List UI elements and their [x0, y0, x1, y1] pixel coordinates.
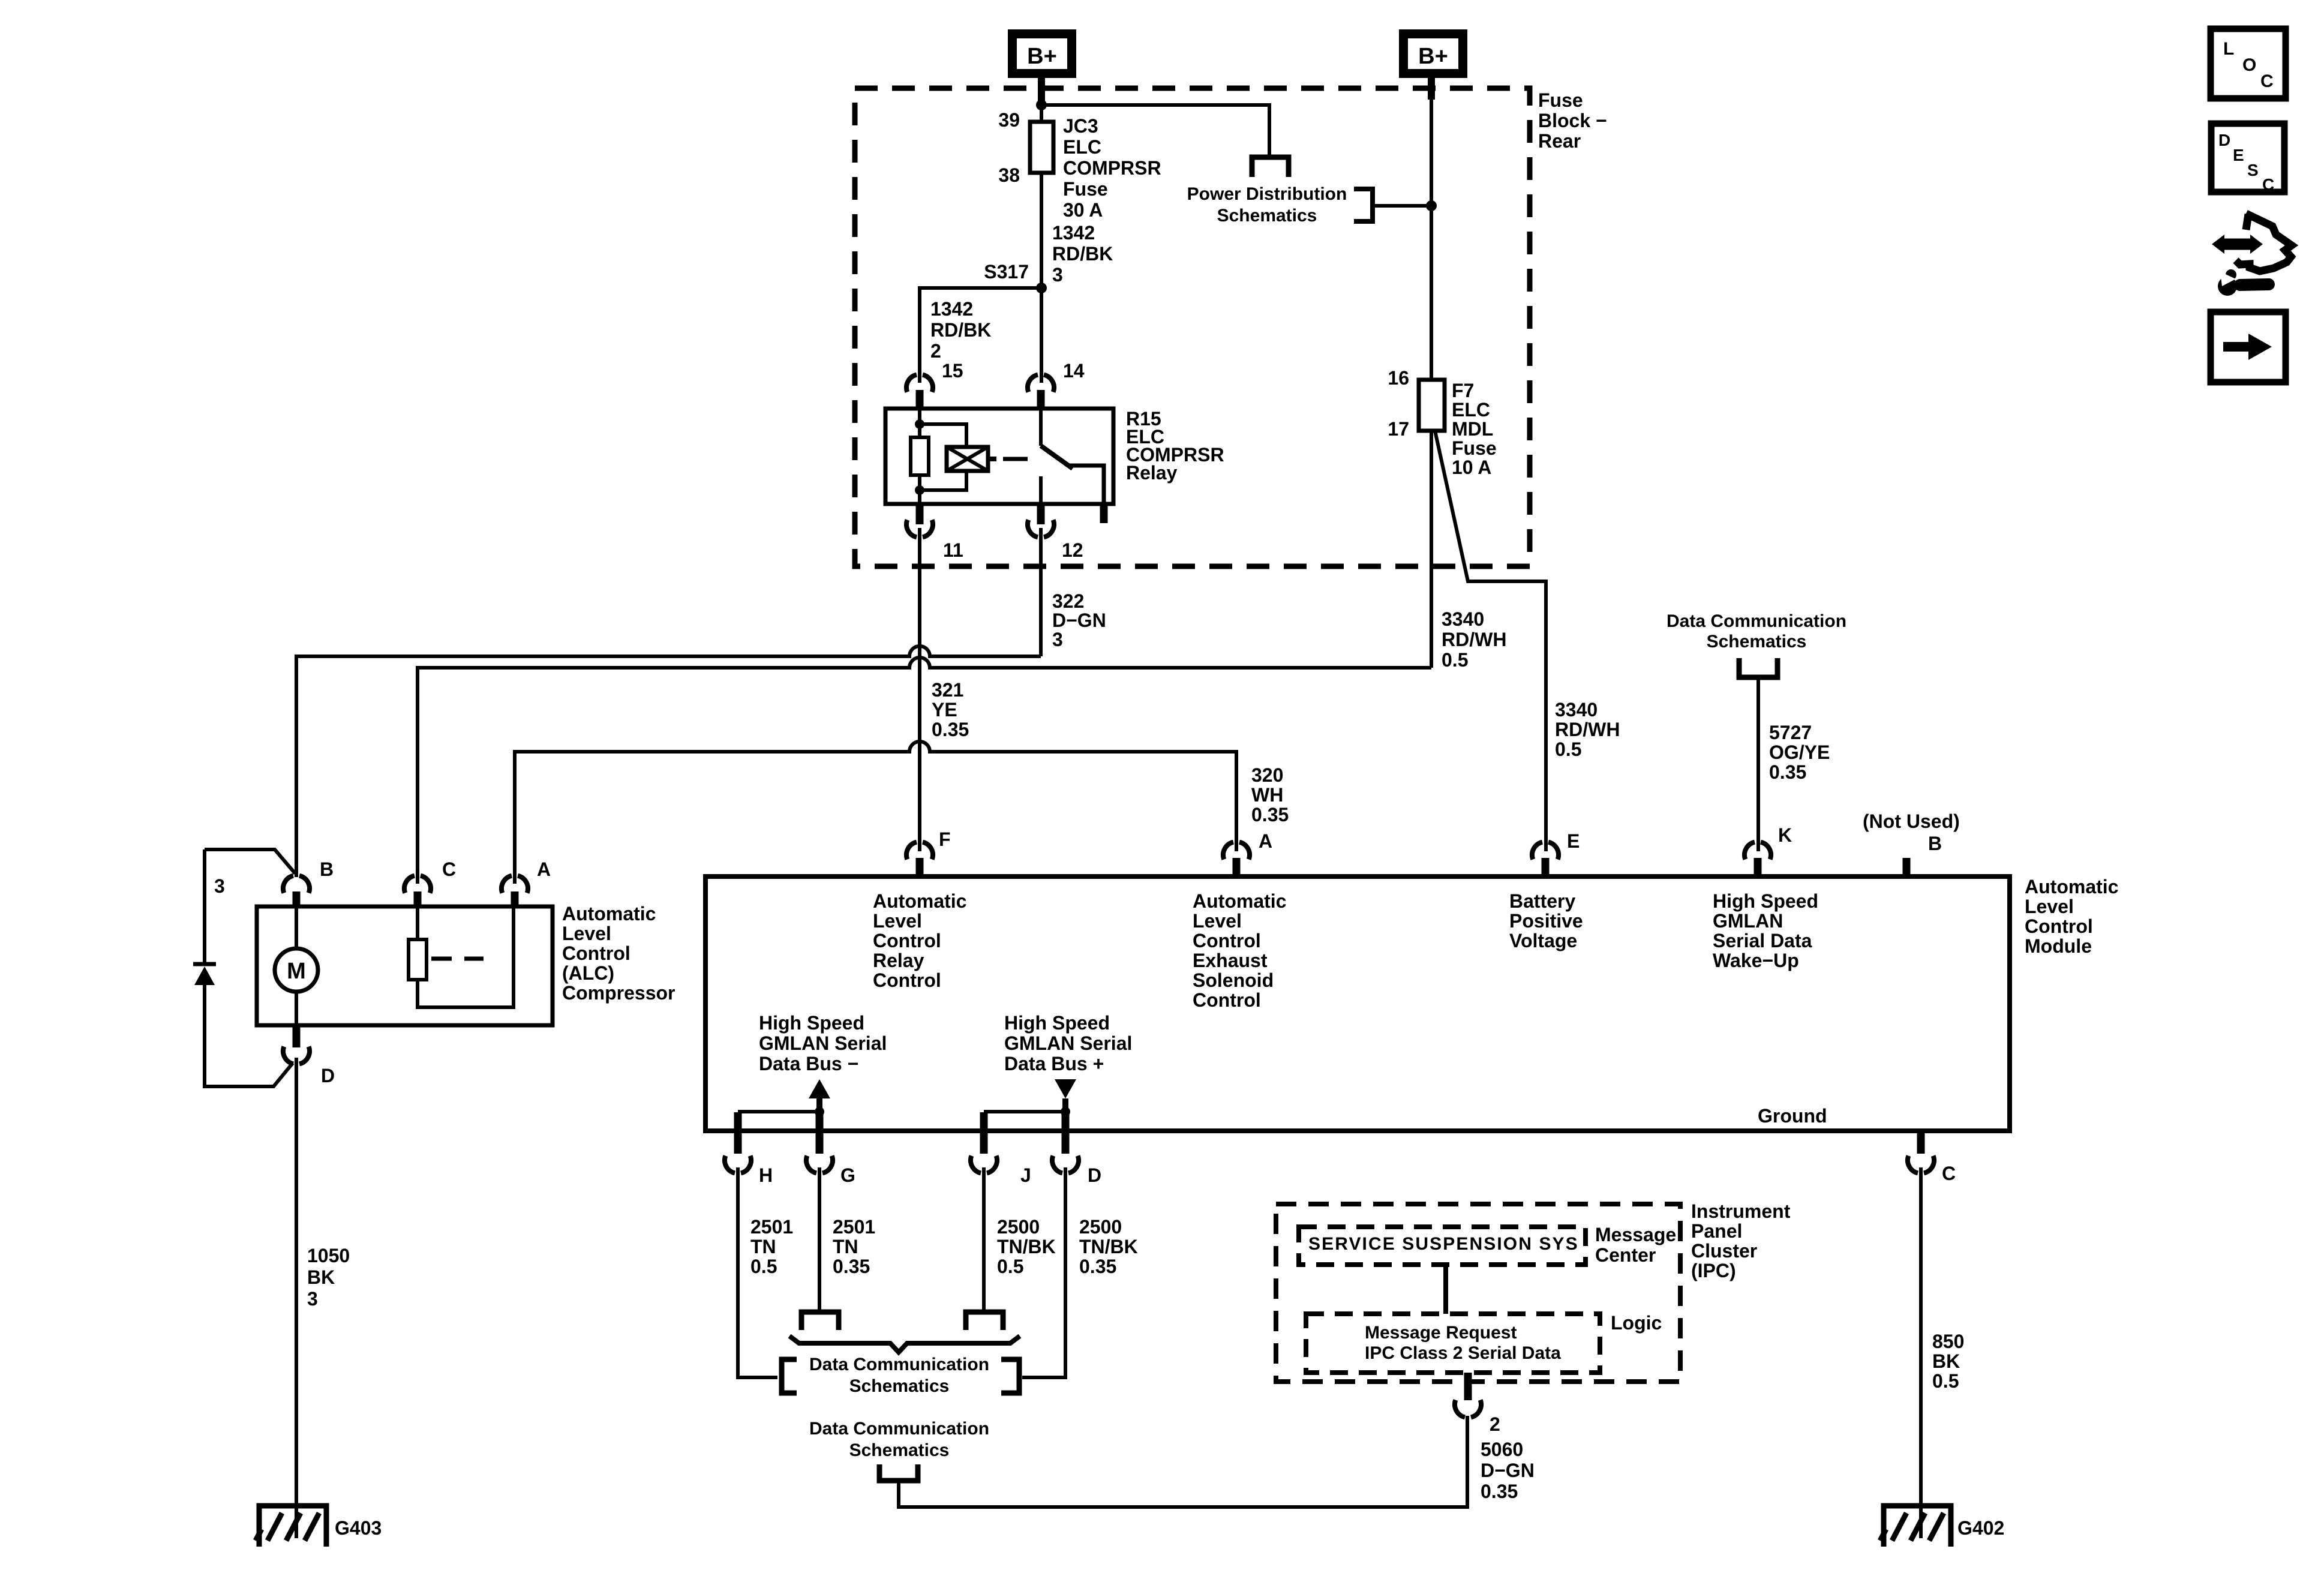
connector pin B of compressor [283, 876, 310, 893]
svg-text:3: 3 [214, 875, 225, 897]
icon box DESC [2211, 124, 2284, 194]
stub relay pin 11 [916, 504, 924, 524]
svg-text:E: E [1567, 830, 1580, 852]
svg-text:A: A [537, 858, 551, 880]
relay actuator dashed link [1003, 457, 1028, 461]
connector pin A of module [1223, 842, 1250, 860]
wire 5060 D-GN from IPC pin 2 to off-page [899, 1416, 1467, 1507]
wire 322 D-GN from relay pin 12 to compressor B [296, 528, 1041, 877]
connector pin A of compressor [502, 876, 528, 893]
stub pin E into module [1542, 858, 1550, 876]
fuse JC3 [1030, 122, 1053, 173]
wire 321 YE from relay pin 11 to module F [918, 528, 921, 851]
wire internal jumper left side lower [205, 985, 293, 1086]
stub pin C into compressor [414, 891, 422, 906]
node relay coil top [915, 419, 924, 429]
wire 2500 TN/BK 0.35 from pin D [1022, 1167, 1065, 1377]
svg-text:B+: B+ [1027, 44, 1057, 69]
motor M of compressor [275, 948, 318, 992]
svg-text:D: D [2218, 131, 2230, 149]
svg-text:Logic: Logic [1611, 1312, 1662, 1334]
svg-text:O: O [2242, 55, 2256, 75]
wire relay coil loop [920, 424, 966, 490]
svg-text:S317: S317 [984, 261, 1029, 283]
power symbol B+ (left feed) [1013, 34, 1072, 74]
wire relay coil top lead [918, 409, 921, 424]
wire 2500 TN/BK 0.5 from pin J [982, 1167, 986, 1311]
icon hand with arrow and wrench [2212, 214, 2292, 296]
stub relay pin 12 [1037, 504, 1045, 524]
stub pin A into compressor [511, 891, 519, 906]
automatic level control (ALC) compressor outline [257, 906, 553, 1025]
connector pin H of module [725, 1156, 751, 1173]
diode cathode bar [193, 962, 216, 966]
wire 5727 OG/YE to module K [1756, 677, 1760, 851]
wire 2501 TN 0.5 from pin H [738, 1167, 777, 1377]
svg-text:L: L [2223, 39, 2234, 59]
arrow data bus minus (up) [809, 1079, 830, 1098]
wire relay switch NC contact to third pin [1068, 466, 1104, 504]
svg-text:C: C [442, 858, 456, 880]
wire 850 BK 0.5 from module C to ground G402 [1919, 1167, 1923, 1538]
node junction at left B+ feed [1036, 100, 1047, 110]
svg-text:H: H [759, 1164, 773, 1186]
svg-text:S: S [2247, 161, 2259, 179]
stub pin K into module [1754, 858, 1762, 876]
wire compressor motor bottom lead [295, 992, 298, 1025]
svg-text:17: 17 [1388, 418, 1409, 440]
stub pin B (not used) of module [1903, 858, 1911, 876]
svg-text:F: F [939, 828, 951, 850]
node junction on right B+ trunk [1426, 200, 1437, 211]
wire bus+ link J to D [984, 1110, 1065, 1113]
svg-text:16: 16 [1388, 367, 1409, 389]
svg-text:39: 39 [998, 109, 1020, 131]
connector pin 12 of relay R15 [1028, 520, 1054, 538]
wire bold stub below right B+ [1428, 78, 1435, 100]
stub relay unused pin [1100, 504, 1108, 523]
svg-text:(Not Used): (Not Used) [1863, 810, 1960, 832]
stub pin 2 of IPC [1464, 1373, 1472, 1400]
svg-text:C: C [1942, 1163, 1956, 1184]
connector pin K of module [1744, 842, 1771, 860]
connector pin J of module [971, 1156, 997, 1173]
icon box arrow (next) [2211, 312, 2286, 382]
svg-text:G403: G403 [335, 1517, 382, 1539]
stub pin A into module [1233, 858, 1241, 876]
svg-text:C: C [2260, 71, 2274, 91]
svg-text:320WH0.35: 320WH0.35 [1251, 764, 1289, 825]
resistor (compressor sensor) [409, 939, 427, 980]
node relay coil bottom [915, 485, 924, 495]
stub pin 14 into relay [1037, 390, 1045, 409]
relay R15 ELC COMPRSR outline [885, 409, 1113, 504]
wire 3340 RD/WH diagonal from fuse F7 pin 17 [1435, 431, 1546, 851]
stub pin G through module edge [816, 1112, 824, 1154]
connector pin C of compressor [404, 876, 431, 893]
message center dashed box [1299, 1227, 1586, 1265]
svg-text:SERVICE SUSPENSION SYS: SERVICE SUSPENSION SYS [1308, 1234, 1579, 1254]
svg-text:11: 11 [943, 539, 963, 561]
fuse F7 ELC MDL [1419, 380, 1445, 431]
wire compressor motor top lead [295, 906, 298, 948]
splice S317 [1036, 283, 1047, 293]
wire from fuse F7 to compressor C (hop over vertical) [418, 658, 1431, 884]
wire 1342 RD/BK 3 from fuse JC3 to splice S317 [1040, 173, 1043, 288]
resistor (relay coil suppression) [911, 437, 929, 475]
bracket left of Data Communication label [782, 1359, 797, 1393]
automatic level control module outline [705, 876, 2010, 1131]
wire internal jumper left side upper [203, 849, 206, 963]
svg-text:B: B [1928, 833, 1942, 854]
node data bus plus [1061, 1107, 1070, 1116]
svg-text:M: M [287, 959, 306, 984]
svg-text:E: E [2233, 146, 2244, 164]
wire relay switch common from pin 14 [1039, 409, 1043, 446]
off-page marker (Data Communication to K) [1739, 658, 1777, 677]
relay coil X strokes [947, 447, 988, 471]
wire 1050 BK 3 to ground G403 [295, 1058, 298, 1538]
wire from B+ junction down to fuse JC3 [1040, 101, 1043, 122]
svg-text:Ground: Ground [1758, 1105, 1827, 1127]
instrument panel cluster dashed outline [1276, 1204, 1680, 1382]
svg-text:G: G [840, 1164, 855, 1186]
connector pin 14 of relay R15 [1028, 375, 1054, 392]
wire from B+ junction to Power Distribution tap [1041, 105, 1269, 157]
fuse block - rear dashed outline [855, 88, 1530, 566]
connector pin 2 of IPC [1455, 1400, 1481, 1418]
wire 320 WH from compressor A to module A [515, 742, 1236, 884]
diode (jumper) [194, 966, 215, 985]
wire bus- link H to G [738, 1110, 819, 1113]
wire message center to logic [1443, 1265, 1448, 1314]
connector pin D of module [1052, 1156, 1079, 1173]
svg-text:A: A [1259, 830, 1272, 852]
off-page marker on wire J [966, 1312, 1003, 1330]
ground G403 [256, 1506, 326, 1547]
wire bold stub below left B+ [1038, 78, 1045, 102]
brace (data bus wires group) [789, 1336, 1020, 1352]
wire arrow to bus+ node [1062, 1098, 1068, 1112]
svg-text:BatteryPositiveVoltage: BatteryPositiveVoltage [1509, 890, 1583, 951]
wire arrow to bus- node [816, 1098, 822, 1112]
svg-text:K: K [1778, 824, 1792, 846]
svg-text:B+: B+ [1418, 44, 1448, 69]
off-page marker on wire G [801, 1312, 839, 1330]
connector pin 11 of relay R15 [906, 520, 933, 538]
stub pin D of compressor [293, 1025, 301, 1047]
svg-text:12: 12 [1062, 539, 1083, 561]
stub pin H through module edge [734, 1112, 742, 1154]
ground G402 [1880, 1506, 1951, 1547]
wire branch from S317 to relay pin 15 [920, 288, 1041, 383]
stub pin D through module edge [1062, 1112, 1070, 1154]
off-page marker (Power Distribution feed) [1252, 157, 1289, 177]
connector pin F of module [906, 842, 933, 860]
stub pin J through module edge [980, 1112, 988, 1154]
relay coil actuator stub [988, 457, 996, 461]
wire compressor sensor top lead [416, 906, 419, 939]
logic dashed box [1306, 1314, 1600, 1373]
connector pin C of module [1908, 1156, 1934, 1173]
svg-text:G402: G402 [1957, 1517, 2004, 1539]
relay switch blade [1041, 446, 1073, 469]
icon box LOC [2211, 29, 2286, 98]
wire 3340 RD/WH vertical trunk from fuse F7 [1430, 431, 1433, 668]
wire compressor sensor return loop [418, 906, 514, 1007]
stub pin C of module [1917, 1131, 1925, 1154]
svg-text:D: D [321, 1065, 335, 1086]
power symbol B+ (right feed) [1404, 34, 1463, 74]
wire 2501 TN 0.35 from pin G [818, 1167, 821, 1311]
wire from S317 down to relay pin 14 [1040, 288, 1043, 383]
wire relay switch output [1039, 476, 1043, 504]
wire internal jumper top [205, 849, 295, 873]
node data bus minus [815, 1107, 824, 1116]
connector pin E of module [1532, 842, 1559, 860]
svg-text:C: C [2262, 175, 2274, 194]
relay coil (box with X) [947, 447, 988, 471]
svg-text:14: 14 [1063, 360, 1085, 382]
stub pin F into module [916, 858, 924, 876]
svg-text:B: B [320, 858, 334, 880]
svg-text:38: 38 [998, 164, 1020, 186]
bracket right of Data Communication label [1001, 1359, 1019, 1393]
dashed link of compressor sensor [431, 957, 484, 961]
wire right B+ trunk down to fuse F7 [1430, 96, 1433, 380]
arrow data bus plus (down) [1055, 1079, 1076, 1098]
connector pin 15 of relay R15 [906, 375, 933, 392]
wire from Power Distribution bracket to B+2 trunk [1375, 204, 1431, 208]
stub pin B into compressor [293, 891, 301, 906]
off-page marker (class 2 serial data) [879, 1464, 918, 1481]
wire relay coil bottom lead [918, 490, 921, 504]
svg-text:J: J [1020, 1164, 1031, 1186]
connector pin D of compressor [283, 1047, 310, 1064]
connector pin G of module [806, 1156, 833, 1173]
bracket around Power Distribution Schematics label [1354, 189, 1373, 221]
svg-text:2: 2 [1490, 1413, 1500, 1435]
svg-text:D: D [1088, 1164, 1101, 1186]
svg-text:15: 15 [942, 360, 963, 382]
wire through relay resistor [918, 424, 921, 490]
stub pin 15 into relay [916, 390, 924, 409]
